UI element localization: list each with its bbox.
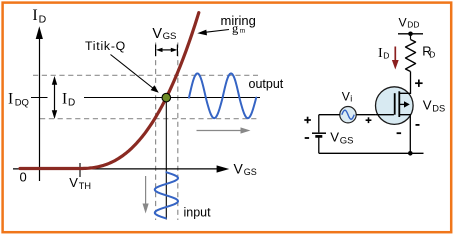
tick IDQ xyxy=(31,97,48,99)
junction dot source/return xyxy=(408,151,413,156)
x-axis VGS xyxy=(13,165,229,172)
svg-text:D: D xyxy=(68,98,75,109)
dashed line vertical right (VGS max) xyxy=(177,43,179,221)
arrow miring gm xyxy=(197,30,229,36)
svg-text:DS: DS xyxy=(432,104,445,114)
wire source xyxy=(399,115,410,154)
dashed line top (ID max level) xyxy=(33,74,258,76)
svg-text:i: i xyxy=(350,94,352,104)
svg-text:I: I xyxy=(8,91,13,108)
label - battery xyxy=(305,137,309,139)
dashed line bottom (ID min level) xyxy=(40,118,258,120)
svg-text:m: m xyxy=(240,26,246,34)
wire battery to Vi xyxy=(319,114,340,116)
svg-text:V: V xyxy=(399,15,408,29)
arrow ID current xyxy=(392,47,399,70)
source Vi circle xyxy=(340,107,356,123)
wire battery top xyxy=(318,115,320,133)
label + VDS xyxy=(415,80,423,87)
label IDQ xyxy=(8,91,29,109)
label RD xyxy=(422,43,435,59)
battery VGS long plate xyxy=(312,132,326,134)
svg-text:I: I xyxy=(32,7,37,24)
label VDS xyxy=(423,98,445,114)
label VGS battery xyxy=(330,130,353,147)
svg-text:DD: DD xyxy=(407,20,419,30)
svg-text:D: D xyxy=(39,14,47,26)
wire gate lead xyxy=(376,114,394,116)
arrow output direction xyxy=(197,127,251,133)
transistor Q1 body xyxy=(376,87,414,125)
svg-text:V: V xyxy=(423,98,432,113)
label gm xyxy=(232,22,246,36)
svg-text:GS: GS xyxy=(163,31,177,42)
svg-text:GS: GS xyxy=(244,167,257,177)
label VGS (swing) xyxy=(152,26,176,42)
Vi sine symbol xyxy=(342,110,354,119)
wire drain xyxy=(399,72,411,94)
svg-text:input: input xyxy=(184,205,212,219)
arrow Titik-Q xyxy=(111,55,159,93)
svg-text:V: V xyxy=(69,175,78,190)
label - VDS xyxy=(416,124,420,126)
transfer curve xyxy=(20,13,199,169)
label VGS (x-axis) xyxy=(234,161,257,178)
label ID (y-axis) xyxy=(32,7,46,26)
svg-text:D: D xyxy=(383,51,389,61)
node dot VDD xyxy=(408,32,413,37)
gate bar Q1 xyxy=(394,93,396,115)
svg-text:V: V xyxy=(234,161,244,177)
wire Vi to gate xyxy=(356,114,375,116)
node line Q level xyxy=(84,97,260,99)
svg-text:I: I xyxy=(378,46,383,61)
arrow input direction xyxy=(143,176,149,214)
svg-text:g: g xyxy=(232,22,239,36)
battery VGS short plate xyxy=(315,135,322,138)
label - source xyxy=(397,132,402,134)
svg-text:D: D xyxy=(429,49,435,59)
svg-text:Titik-Q: Titik-Q xyxy=(85,39,126,53)
y-axis ID xyxy=(36,26,43,181)
svg-text:DQ: DQ xyxy=(15,98,29,109)
resistor RD xyxy=(406,40,416,72)
rail VDD xyxy=(398,33,423,35)
svg-text:V: V xyxy=(330,130,339,145)
label ID (swing) xyxy=(62,91,75,109)
svg-text:TH: TH xyxy=(79,181,91,191)
label ID (circuit) xyxy=(378,46,389,61)
label + gate xyxy=(366,117,372,123)
svg-text:I: I xyxy=(62,91,67,108)
arrow ID swing (vertical double arrow) xyxy=(52,76,57,119)
svg-text:0: 0 xyxy=(20,169,27,184)
label VDD xyxy=(399,15,420,29)
label VTH xyxy=(69,175,91,191)
svg-text:V: V xyxy=(152,26,162,42)
channel bar Q1 xyxy=(398,91,400,117)
tick VTH xyxy=(79,163,81,177)
svg-text:GS: GS xyxy=(340,136,354,147)
label Vi xyxy=(342,89,352,103)
Q vertical line xyxy=(165,98,167,220)
label + battery xyxy=(304,117,311,124)
wire VDD to resistor xyxy=(410,34,412,40)
output sine xyxy=(189,74,256,119)
dashed line vertical left (VGS min) xyxy=(155,43,157,221)
node Q point xyxy=(162,93,171,102)
svg-text:output: output xyxy=(249,77,284,91)
input sine xyxy=(155,172,178,218)
bulk arrow Q1 xyxy=(399,101,410,107)
wire battery bottom xyxy=(318,137,320,153)
wire bottom return xyxy=(319,152,424,154)
arrow VGS swing (horizontal double arrow) xyxy=(156,45,178,57)
